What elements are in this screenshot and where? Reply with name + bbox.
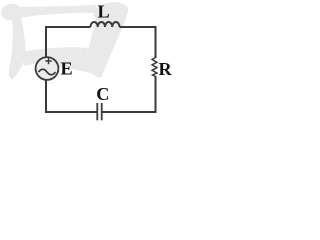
AC source U1 circle [36,57,59,80]
watermark [0,0,130,79]
wire: bottom right horizontal segment [102,111,156,113]
wire: top right horizontal segment [120,26,156,28]
svg-text:C: C [96,84,109,104]
svg-text:E: E [61,59,73,79]
wire: left vertical lower segment [45,81,47,114]
wire: top left horizontal segment [46,26,91,28]
wire: right vertical lower segment [155,76,157,113]
wire: bottom left horizontal segment [46,111,97,113]
wire: left vertical upper segment [45,26,47,57]
svg-text:L: L [98,2,110,22]
capacitor C right plate [101,103,103,120]
wire: right vertical upper segment [155,26,157,58]
resistor R zigzag [152,58,157,77]
inductor L [91,22,120,27]
AC source sine wave [39,69,56,75]
capacitor C left plate [96,103,98,120]
svg-text:R: R [159,59,173,79]
AC source plus sign [45,58,51,64]
